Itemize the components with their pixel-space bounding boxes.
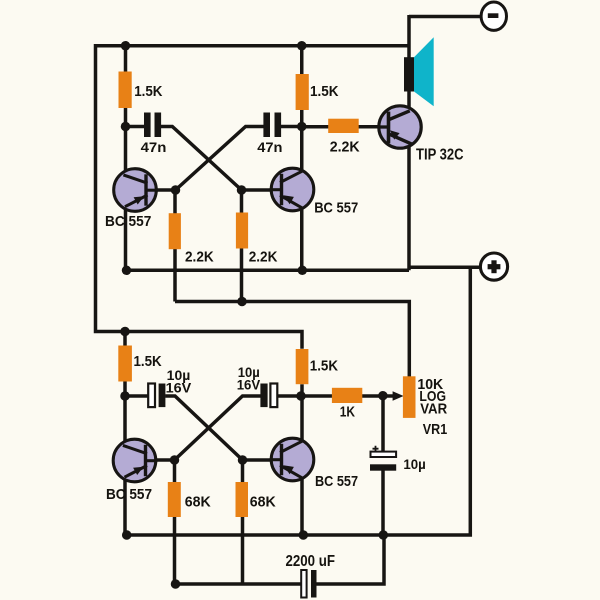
node J13 [170, 455, 180, 465]
wire Q2 base lead [242, 188, 273, 192]
wire Q5 base lead [243, 458, 273, 462]
terminal positive [480, 253, 507, 280]
wire top rail + left frame + lower rail [96, 46, 410, 349]
node J12 [296, 391, 306, 401]
wire 1K run [301, 394, 394, 398]
node J5 [171, 185, 181, 195]
svg-text:2200 uF: 2200 uF [286, 553, 336, 570]
wire 68K right column [241, 460, 245, 584]
resistor R6 1.5K bottom-left [118, 346, 132, 382]
svg-text:TIP 32C: TIP 32C [416, 146, 464, 163]
wire left 47n branch [126, 125, 145, 129]
node J16 [122, 530, 132, 540]
wire Q1 base lead [155, 188, 176, 192]
node J2 [297, 41, 307, 51]
svg-text:1.5K: 1.5K [310, 83, 339, 100]
capacitor C4 10u16V right neg plate [270, 384, 277, 408]
node J9 [237, 297, 247, 307]
wire Q4 base lead [154, 458, 174, 462]
svg-text:47n: 47n [141, 140, 167, 156]
wire 2200uF left run [176, 582, 302, 586]
wire 10u vertical column [381, 396, 385, 536]
transistor Q5 BC557 bottom-right [270, 438, 314, 481]
wire lower right cap branch [277, 394, 301, 398]
svg-text:BC 557: BC 557 [106, 486, 152, 503]
speaker LS1 cone [414, 37, 434, 106]
node J1 [121, 41, 131, 51]
capacitor C5 polarity plus [373, 446, 379, 452]
svg-text:BC 557: BC 557 [105, 213, 151, 230]
terminal negative [481, 2, 506, 30]
node J17 [299, 530, 309, 540]
wire left 47n to right base diagonal [161, 127, 242, 191]
svg-text:2.2K: 2.2K [249, 249, 278, 266]
resistor R7 1.5K bottom-right [296, 349, 309, 384]
wire 68K left column [173, 460, 177, 584]
svg-text:1.5K: 1.5K [134, 83, 162, 100]
node J18 [379, 530, 389, 540]
capacitor C5 10u top plate [371, 452, 397, 457]
node J7 [122, 266, 132, 276]
transistor Q1 BC557 top-left [114, 169, 158, 212]
svg-text:2.2K: 2.2K [185, 248, 214, 265]
node J8 [298, 266, 308, 276]
wire right 47n branch [281, 125, 302, 129]
resistor R1 1.5K top-left [119, 72, 132, 109]
svg-text:10µ: 10µ [403, 456, 425, 472]
node J15 [378, 391, 388, 401]
node J11 [120, 391, 130, 401]
capacitor C6 2200uF pos plate [311, 570, 317, 598]
wire 2.2K horizontal run to TIP base [302, 125, 381, 129]
svg-text:16V: 16V [166, 381, 192, 396]
svg-text:2.2K: 2.2K [330, 138, 360, 155]
resistor R9 68K left [168, 482, 181, 517]
wire left 2.2K column [173, 190, 177, 302]
capacitor C3 10u16V left neg plate [148, 384, 155, 408]
svg-text:1.5K: 1.5K [134, 353, 162, 370]
resistor R5 2.2K base TIP32C [328, 119, 359, 133]
resistor R2 1.5K top-right [296, 74, 309, 110]
node J10 [120, 327, 130, 337]
potentiometer VR1 10K LOG [403, 376, 416, 418]
wire right 47n to left base diagonal [176, 127, 264, 191]
svg-text:1.5K: 1.5K [310, 357, 338, 374]
resistor R3 2.2K left [169, 213, 181, 249]
wire right 10u to left base diagonal [175, 396, 261, 460]
resistor R8 1K [332, 388, 362, 403]
svg-text:BC 557: BC 557 [315, 473, 358, 490]
arrow wiper into VR1 [393, 391, 404, 401]
resistor R4 2.2K right [236, 213, 248, 249]
capacitor C1 47n left plate A [144, 113, 151, 138]
wire right branch + bottom rail [127, 267, 471, 535]
wire lower left column [123, 332, 127, 536]
node J6 [237, 185, 247, 195]
svg-text:VR1: VR1 [423, 421, 447, 438]
transistor Q4 BC557 bottom-left [113, 439, 157, 482]
capacitor C6 2200uF neg plate [301, 570, 306, 598]
capacitor C2 47n right plate A [263, 113, 270, 138]
wire speaker column [407, 15, 411, 107]
svg-text:VAR: VAR [420, 400, 447, 417]
svg-text:1K: 1K [340, 405, 356, 421]
wire left 10u to right base diagonal [165, 396, 242, 460]
wire emitter rail top section [126, 269, 410, 273]
svg-text:47n: 47n [257, 140, 282, 156]
wire right 2.2K column [240, 190, 244, 302]
wire 2200uF right run up [316, 533, 384, 584]
wire plus rail [409, 266, 479, 270]
capacitor C1 47n left plate B [155, 113, 162, 138]
node J4 [297, 122, 307, 132]
wire mid line to VR1 [175, 302, 409, 377]
node J14 [238, 455, 248, 465]
svg-text:16V: 16V [237, 377, 261, 392]
resistor R10 68K right [236, 482, 249, 517]
capacitor C4 10u16V right pos plate [260, 384, 267, 408]
capacitor C2 47n right plate B [275, 113, 282, 138]
speaker LS1 body [404, 57, 414, 91]
wire minus terminal stub [409, 15, 481, 19]
svg-text:BC 557: BC 557 [314, 200, 358, 217]
transistor Q2 BC557 top-right [270, 168, 314, 211]
svg-text:68K: 68K [185, 495, 212, 511]
wire lower left cap branch [125, 394, 148, 398]
node J3 [121, 122, 131, 132]
svg-text:68K: 68K [250, 495, 277, 511]
wire left column top section [124, 46, 128, 271]
capacitor C5 10u bottom plate [370, 464, 396, 470]
transistor Q3 TIP32C [379, 106, 421, 148]
capacitor C3 10u16V left pos plate [159, 384, 166, 408]
wire lower right column [300, 384, 304, 535]
node J19 [171, 579, 181, 589]
wire right column top section [300, 46, 304, 271]
wire TIP32C emitter down [407, 145, 411, 270]
